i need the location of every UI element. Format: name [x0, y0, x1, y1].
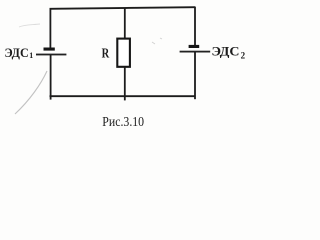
battery ЭДС1 thick plate [44, 48, 55, 51]
battery ЭДС2 thin plate [180, 51, 211, 53]
svg-text:Рис.3.10: Рис.3.10 [102, 115, 144, 130]
wire left vertical lower [50, 55, 52, 100]
svg-text:ЭДС: ЭДС [212, 43, 240, 58]
wire bottom horizontal [50, 95, 196, 97]
wire left vertical upper [49, 8, 51, 48]
wire top horizontal [50, 7, 196, 9]
wire right vertical lower [194, 52, 196, 99]
battery ЭДС2 thick plate [189, 45, 200, 48]
wire middle vertical upper [124, 8, 126, 39]
svg-text:R: R [102, 47, 110, 62]
resistor R body [117, 39, 130, 67]
svg-text:1: 1 [29, 51, 33, 60]
wire middle vertical lower [124, 67, 126, 101]
wire right vertical upper [194, 7, 196, 45]
svg-text:2: 2 [241, 50, 246, 60]
svg-text:ЭДС: ЭДС [5, 46, 29, 60]
battery ЭДС1 thin plate [36, 54, 66, 56]
